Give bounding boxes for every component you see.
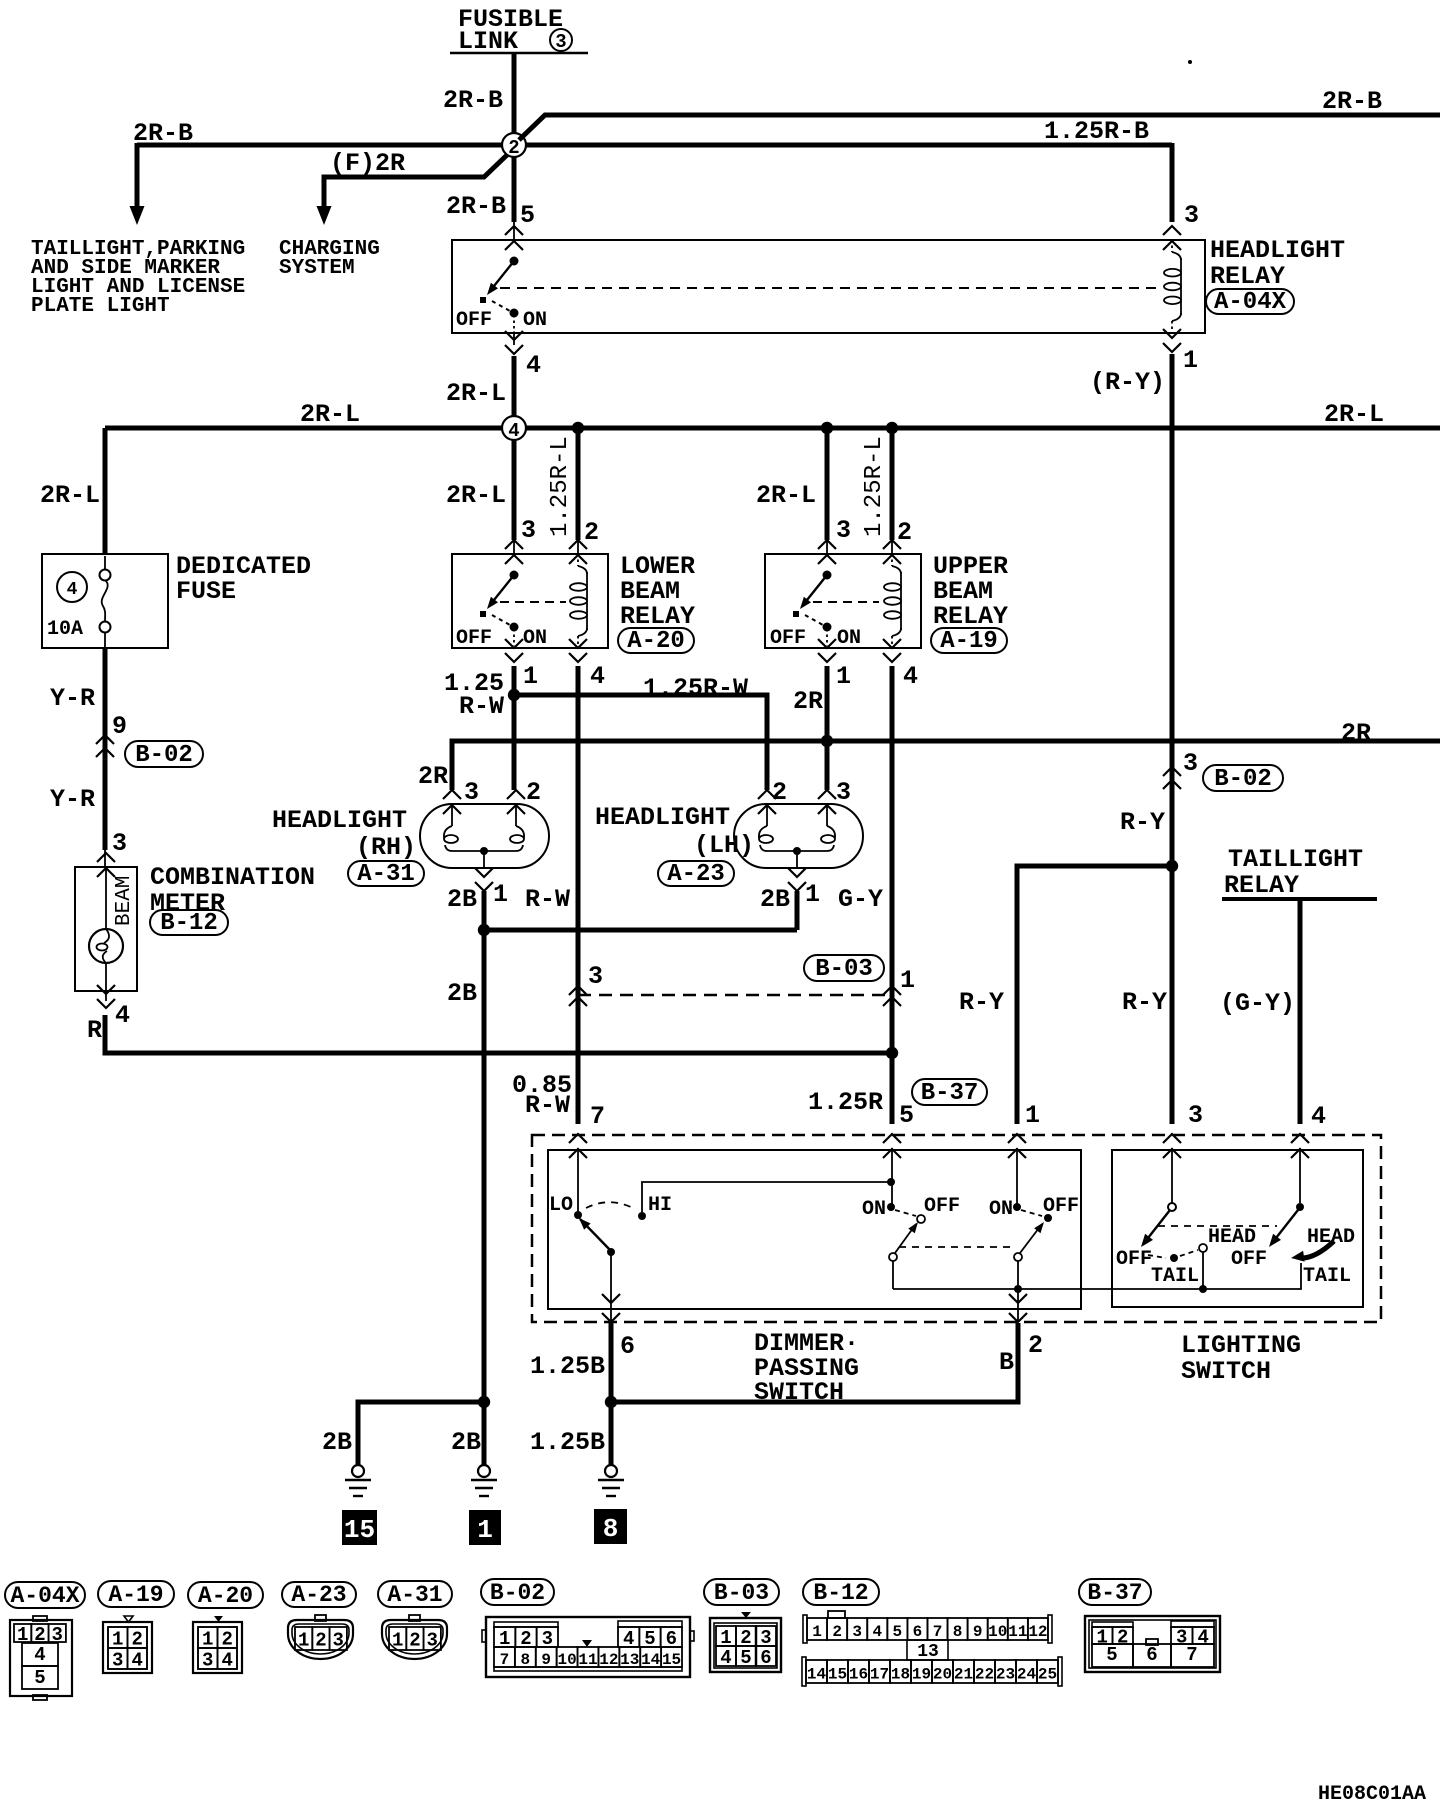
passing B blade — [1014, 1222, 1044, 1261]
pin 6 arrows — [602, 1294, 620, 1322]
svg-text:1.25R: 1.25R — [808, 1088, 883, 1117]
label (R-Y) — [1090, 368, 1165, 397]
label 1.25B ground — [530, 1428, 605, 1457]
pin arrows A-19 bottom — [818, 639, 901, 662]
pin 7 label — [590, 1102, 605, 1131]
headlight relay A-04X box — [452, 240, 1205, 333]
svg-text:15: 15 — [828, 1666, 847, 1684]
pin 1 label LH — [805, 880, 820, 909]
wire G-Y pin4 stub — [1299, 1148, 1301, 1203]
node dot 2R — [821, 735, 833, 747]
svg-text:PLATE LIGHT: PLATE LIGHT — [31, 295, 170, 318]
label 2R-L bus left — [300, 400, 360, 429]
svg-text:18: 18 — [891, 1666, 910, 1684]
label R-Y mid left — [959, 988, 1004, 1017]
svg-text:1.25R-L: 1.25R-L — [547, 436, 574, 537]
label R-Y mid right — [1122, 988, 1167, 1017]
node dot R-Y — [1166, 860, 1178, 872]
connector label A-23 — [282, 1582, 356, 1608]
svg-text:9: 9 — [112, 712, 127, 741]
pin 5 arrows — [505, 226, 523, 250]
svg-text:RELAY: RELAY — [933, 602, 1008, 631]
meter pin 3 arrows — [97, 853, 115, 877]
svg-text:OFF: OFF — [456, 309, 492, 332]
pin 3 label headlight relay — [1184, 201, 1199, 230]
svg-text:21: 21 — [954, 1666, 973, 1684]
wire 2R-B to taillight branch — [137, 143, 503, 207]
svg-text:2: 2 — [1028, 1331, 1043, 1360]
label 2B LH — [760, 885, 790, 914]
wire 2R-L to A-20 pin 3 — [512, 439, 517, 554]
pin 4 label A-20 — [590, 662, 605, 691]
pin 1 label A-20 — [523, 662, 538, 691]
svg-text:B-12: B-12 — [813, 1580, 868, 1606]
svg-text:5: 5 — [893, 1623, 903, 1641]
ground 8 — [598, 1465, 624, 1496]
svg-text:A-20: A-20 — [627, 628, 685, 655]
passing link dashed — [899, 1246, 1014, 1248]
svg-text:HI: HI — [648, 1194, 672, 1217]
svg-text:B-02: B-02 — [1214, 766, 1272, 793]
svg-text:1.25B: 1.25B — [530, 1352, 605, 1381]
svg-text:3: 3 — [202, 1650, 213, 1672]
pin arrows A-20 bottom — [505, 639, 587, 662]
svg-text:10A: 10A — [47, 618, 83, 641]
svg-text:SWITCH: SWITCH — [1181, 1357, 1271, 1386]
svg-text:2: 2 — [526, 778, 541, 807]
label OFF passing B — [1043, 1195, 1079, 1218]
svg-text:4: 4 — [222, 1650, 233, 1672]
label OFF A-20 — [456, 627, 492, 650]
pin 1 label headlight relay — [1183, 346, 1198, 375]
pin labels RH — [464, 778, 541, 807]
wire dimmer pin 6 — [610, 1252, 612, 1322]
connector B-37 — [1085, 1616, 1220, 1672]
svg-text:2R-L: 2R-L — [1324, 400, 1384, 429]
svg-text:3: 3 — [112, 1650, 123, 1672]
svg-text:1: 1 — [812, 1623, 822, 1641]
svg-text:4: 4 — [67, 580, 78, 600]
svg-text:7: 7 — [590, 1102, 605, 1131]
svg-text:R: R — [87, 1016, 102, 1045]
connector label B-12 — [803, 1579, 879, 1606]
connector A-20 — [193, 1616, 242, 1673]
svg-text:OFF: OFF — [1116, 1248, 1152, 1271]
connector label B-02 right — [1203, 765, 1283, 793]
svg-text:20: 20 — [933, 1666, 952, 1684]
svg-text:3: 3 — [1188, 1101, 1203, 1130]
svg-text:LINK: LINK — [458, 27, 518, 56]
pin 1 arrows headlight relay — [1163, 329, 1181, 352]
upper beam relay box — [765, 554, 921, 648]
headlight relay coil — [1164, 240, 1181, 333]
svg-text:2: 2 — [315, 1630, 326, 1652]
wire 1.25R-L to A-20 pin 2 — [576, 428, 581, 554]
pin 1 label B-03 — [900, 966, 915, 995]
wire HEAD drop — [1202, 1252, 1204, 1289]
svg-text:4: 4 — [590, 662, 605, 691]
svg-text:2R-B: 2R-B — [1322, 87, 1382, 116]
svg-text:G-Y: G-Y — [838, 885, 883, 914]
connector label A-19 — [98, 1581, 174, 1608]
pin arrows LH top — [758, 790, 836, 814]
svg-text:3: 3 — [464, 778, 479, 807]
note charging system — [279, 238, 380, 280]
svg-text:7: 7 — [933, 1623, 943, 1641]
node dot R at G-Y — [886, 1047, 898, 1059]
label 1.25R-B — [1044, 117, 1149, 146]
wire 1.25R-L to A-19 pin 2 — [890, 428, 895, 554]
passing B wire — [1017, 1261, 1019, 1322]
svg-text:2R-B: 2R-B — [443, 86, 503, 115]
connector B-12 — [802, 1611, 1062, 1686]
svg-text:OFF: OFF — [770, 627, 806, 650]
lighting B thick arc — [1291, 1241, 1334, 1262]
svg-text:ON: ON — [523, 309, 547, 332]
pin 5 label — [520, 201, 535, 230]
lighting B contact — [1296, 1203, 1304, 1211]
connector label A-31 — [378, 1581, 452, 1608]
connector label B-37 — [1079, 1579, 1151, 1606]
label OFF lighting B — [1231, 1248, 1267, 1271]
svg-text:5: 5 — [34, 1667, 45, 1689]
label OFF passing A — [924, 1195, 960, 1218]
label 2R-L A-20 — [446, 481, 506, 510]
label G-Y — [838, 885, 883, 914]
taillight relay name — [1222, 845, 1377, 900]
node dot pin 2 — [1014, 1285, 1022, 1293]
label 2B lower — [447, 979, 477, 1008]
headlight RH name — [272, 806, 424, 888]
label 2B ground mid — [451, 1428, 481, 1457]
svg-text:4: 4 — [872, 1623, 882, 1641]
label 2R-B top — [443, 86, 503, 115]
upper beam relay name — [931, 552, 1008, 655]
wire R to B-37 — [105, 991, 892, 1053]
svg-text:OFF: OFF — [924, 1195, 960, 1218]
label R — [87, 1016, 102, 1045]
pin 4 label meter — [115, 1001, 130, 1030]
svg-text:A-20: A-20 — [198, 1583, 253, 1609]
pin 6 label — [620, 1332, 635, 1361]
svg-text:1: 1 — [805, 880, 820, 909]
svg-text:12: 12 — [1028, 1623, 1047, 1641]
wire R-W pin7 stub — [577, 1148, 579, 1215]
junction 2 — [502, 133, 526, 159]
svg-text:5: 5 — [740, 1647, 751, 1669]
label 2R-L A-19 — [756, 481, 816, 510]
lighting A blade — [1141, 1210, 1170, 1247]
svg-text:B: B — [999, 1348, 1014, 1377]
node dot HEAD drop — [1199, 1285, 1207, 1293]
svg-text:B-37: B-37 — [1087, 1580, 1142, 1606]
svg-text:TAILLIGHT: TAILLIGHT — [1228, 845, 1363, 874]
svg-text:R-W: R-W — [459, 692, 504, 721]
svg-text:1: 1 — [493, 880, 508, 909]
pin 3 label lighting — [1188, 1101, 1203, 1130]
svg-text:1: 1 — [1183, 346, 1198, 375]
pin 3 label B-03 — [588, 962, 603, 991]
svg-text:A-19: A-19 — [108, 1582, 163, 1608]
wire 2R from A-19 pin1 — [825, 666, 830, 790]
svg-text:B-37: B-37 — [921, 1080, 979, 1107]
svg-text:3: 3 — [521, 516, 536, 545]
node dot 2B — [478, 924, 490, 936]
svg-text:1.25B: 1.25B — [530, 1428, 605, 1457]
pin arrows A-19 top — [818, 540, 901, 564]
svg-text:6: 6 — [913, 1623, 923, 1641]
dimmer blade — [579, 1218, 615, 1256]
passing A blade — [889, 1222, 918, 1261]
pin 1 label RH — [493, 880, 508, 909]
svg-text:14: 14 — [807, 1666, 827, 1684]
svg-text:11: 11 — [1008, 1623, 1027, 1641]
svg-text:A-23: A-23 — [667, 861, 725, 888]
svg-text:3: 3 — [427, 1630, 438, 1652]
svg-text:HEADLIGHT: HEADLIGHT — [272, 806, 407, 835]
svg-text:8: 8 — [603, 1514, 619, 1544]
label 2R-L below relay — [446, 379, 506, 408]
svg-text:(RH): (RH) — [356, 833, 416, 862]
svg-text:HEADLIGHT: HEADLIGHT — [595, 803, 730, 832]
svg-text:FUSE: FUSE — [176, 577, 236, 606]
passing B OFF contact — [1044, 1214, 1052, 1222]
svg-text:1: 1 — [392, 1630, 403, 1652]
connector label A-04X — [5, 1582, 85, 1609]
lighting A HEAD contact — [1199, 1244, 1207, 1252]
svg-text:HEAD: HEAD — [1208, 1226, 1256, 1249]
svg-text:24: 24 — [1017, 1666, 1037, 1684]
pin 1 arrows RH — [475, 868, 493, 891]
svg-text:1: 1 — [523, 662, 538, 691]
connector A-23 — [288, 1615, 353, 1659]
svg-text:A-04X: A-04X — [1214, 289, 1287, 316]
headlight LH outline — [734, 804, 863, 868]
svg-text:3: 3 — [1183, 749, 1198, 778]
svg-text:Y-R: Y-R — [50, 785, 95, 814]
label OFF A-19 — [770, 627, 806, 650]
wire R-Y branch — [1017, 866, 1172, 1124]
label BEAM — [113, 876, 136, 926]
pin 2 label A-20 — [584, 518, 599, 547]
ground box 15 — [342, 1510, 377, 1545]
label 2R-B left — [133, 119, 193, 148]
wire 2R-L bus right — [525, 426, 1440, 431]
svg-text:4: 4 — [115, 1001, 130, 1030]
svg-text:4: 4 — [720, 1647, 731, 1669]
wire G-Y taillight relay — [1298, 899, 1303, 1124]
svg-text:8: 8 — [953, 1623, 963, 1641]
svg-text:7: 7 — [1186, 1644, 1197, 1666]
svg-text:15: 15 — [344, 1515, 375, 1545]
headlight LH bulbs — [759, 806, 835, 868]
svg-text:1: 1 — [836, 662, 851, 691]
label ON headlight relay — [523, 309, 547, 332]
svg-text:(R-Y): (R-Y) — [1090, 368, 1165, 397]
svg-text:3: 3 — [588, 962, 603, 991]
svg-text:ON: ON — [523, 627, 547, 650]
wire B pin2 — [611, 1323, 1018, 1402]
pin 9 label — [112, 712, 127, 741]
svg-text:A-31: A-31 — [357, 861, 415, 888]
svg-text:2B: 2B — [760, 885, 790, 914]
fuse circle 4 — [57, 572, 87, 602]
label 10A — [47, 618, 83, 641]
svg-text:1: 1 — [900, 966, 915, 995]
ground 1 — [471, 1465, 497, 1496]
combination meter name — [150, 863, 315, 937]
svg-text:4: 4 — [508, 420, 519, 442]
ground box 8 — [594, 1509, 627, 1544]
svg-text:TAIL: TAIL — [1151, 1265, 1199, 1288]
svg-text:6: 6 — [620, 1332, 635, 1361]
svg-text:RELAY: RELAY — [1224, 871, 1299, 900]
headlight RH bulbs — [444, 806, 524, 868]
label HI — [648, 1194, 672, 1217]
connector A-04X — [10, 1616, 72, 1700]
svg-text:6: 6 — [1146, 1644, 1157, 1666]
wire tail common — [893, 1263, 1301, 1289]
fuse element — [100, 556, 111, 648]
label OFF lighting A — [1116, 1248, 1152, 1271]
pin 1 label dimmer — [1025, 1101, 1040, 1130]
svg-text:A-23: A-23 — [291, 1582, 346, 1608]
node dot 1.25B — [605, 1396, 617, 1408]
connector B-02 marker on R-Y — [1163, 767, 1181, 789]
svg-text:A-31: A-31 — [387, 1582, 442, 1608]
wire R-Y from headlight relay pin1 — [1170, 354, 1175, 1124]
svg-text:4: 4 — [132, 1650, 143, 1672]
svg-text:B-02: B-02 — [490, 1580, 545, 1606]
svg-text:A-19: A-19 — [940, 628, 998, 655]
wire HI riser — [642, 1182, 891, 1212]
svg-text:Y-R: Y-R — [50, 684, 95, 713]
svg-text:SYSTEM: SYSTEM — [279, 257, 355, 280]
dimmer-passing switch name — [754, 1329, 859, 1407]
wire R-Y pin1 stub — [1016, 1148, 1018, 1207]
svg-text:2: 2 — [508, 137, 519, 159]
svg-text:2R-B: 2R-B — [133, 119, 193, 148]
svg-text:4: 4 — [1311, 1102, 1326, 1131]
svg-text:A-04X: A-04X — [10, 1583, 79, 1609]
lower beam relay switch — [480, 571, 519, 647]
svg-text:4: 4 — [903, 662, 918, 691]
dedicated fuse box — [42, 554, 168, 648]
svg-text:(F)2R: (F)2R — [330, 149, 405, 178]
label 2R-B pin5 — [446, 192, 506, 221]
label R-W — [525, 885, 570, 914]
label 2R A-19 pin1 — [793, 687, 823, 716]
label 2R-B right — [1322, 87, 1382, 116]
svg-text:4: 4 — [526, 351, 541, 380]
svg-text:ON: ON — [862, 1198, 886, 1221]
connector B-02 — [482, 1617, 694, 1677]
pin 1 label A-19 — [836, 662, 851, 691]
svg-text:B-02: B-02 — [135, 742, 193, 769]
svg-text:(G-Y): (G-Y) — [1220, 989, 1295, 1018]
lighting switch box — [1112, 1150, 1363, 1307]
lighting link dashed — [1158, 1225, 1277, 1227]
svg-text:2B: 2B — [447, 885, 477, 914]
svg-text:16: 16 — [849, 1666, 868, 1684]
svg-text:2B: 2B — [447, 979, 477, 1008]
svg-text:HEADLIGHT: HEADLIGHT — [1210, 236, 1345, 265]
svg-text:LIGHTING: LIGHTING — [1181, 1331, 1301, 1360]
connector A-31 — [382, 1615, 447, 1659]
wire 1.25R pin5 stub — [891, 1148, 893, 1207]
svg-text:2B: 2B — [451, 1428, 481, 1457]
beam indicator lamp — [89, 868, 123, 991]
headlight relay name — [1206, 236, 1345, 316]
dashed wire B-03 — [578, 994, 892, 997]
fusible link 3 label — [450, 5, 588, 56]
lower beam relay link dashed — [500, 601, 566, 603]
label 2R-L left branch — [40, 481, 100, 510]
pin 3 label A-20 — [521, 516, 536, 545]
label Y-R upper — [50, 684, 95, 713]
pin 2 label A-19 — [897, 518, 912, 547]
connector label B-02 left — [125, 741, 203, 769]
node dot 1.25R-L A-19 — [886, 422, 898, 434]
svg-text:2: 2 — [409, 1630, 420, 1652]
wire 1.25B pin6 — [609, 1323, 614, 1465]
svg-text:R-Y: R-Y — [1120, 808, 1165, 837]
connector label B-02 — [481, 1579, 554, 1606]
pin 1 arrows LH — [788, 868, 806, 891]
passing A ON contact — [887, 1203, 895, 1211]
svg-text:10: 10 — [988, 1623, 1007, 1641]
wire 1.25R-W to LH pin2 — [514, 695, 767, 790]
lower beam relay name — [618, 552, 695, 655]
speck — [1188, 60, 1192, 64]
connector label B-37 — [912, 1079, 987, 1107]
passing A OFF contact — [917, 1215, 925, 1223]
svg-text:ON: ON — [989, 1198, 1013, 1221]
svg-text:1: 1 — [477, 1515, 493, 1545]
svg-text:LO: LO — [549, 1194, 573, 1217]
lighting A contact — [1168, 1203, 1176, 1211]
wire 2B bus — [484, 891, 797, 1465]
svg-text:BEAM: BEAM — [113, 876, 136, 926]
svg-text:B-03: B-03 — [815, 956, 873, 983]
label 2R right — [1341, 719, 1371, 748]
label ON passing A — [862, 1198, 886, 1221]
svg-text:2R: 2R — [418, 762, 448, 791]
svg-text:1.25R-W: 1.25R-W — [643, 674, 748, 703]
svg-text:2R-L: 2R-L — [300, 400, 360, 429]
label B — [999, 1348, 1014, 1377]
svg-text:OFF: OFF — [1231, 1248, 1267, 1271]
passing A dashed — [895, 1210, 916, 1216]
connector label B-03 — [704, 1579, 779, 1606]
pin labels LH — [772, 778, 851, 807]
svg-text:6: 6 — [760, 1647, 771, 1669]
svg-text:2: 2 — [584, 518, 599, 547]
label 1.25 R-W — [444, 669, 504, 721]
label 2B RH — [447, 885, 477, 914]
headlight RH outline — [420, 804, 549, 868]
connector label A-20 — [188, 1582, 263, 1609]
wire 1.25R-W junction — [512, 666, 517, 790]
pin 4 label A-19 — [903, 662, 918, 691]
svg-text:5: 5 — [1106, 1644, 1117, 1666]
pin 4 arrows — [505, 331, 523, 354]
svg-text:17: 17 — [870, 1666, 889, 1684]
part number — [1318, 1783, 1426, 1806]
svg-text:2: 2 — [832, 1623, 842, 1641]
ground box 1 — [469, 1510, 501, 1545]
upper beam relay switch — [793, 571, 832, 647]
